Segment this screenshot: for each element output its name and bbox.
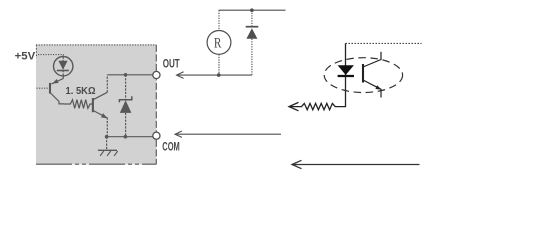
box border bottom (long dashes) bbox=[36, 163, 156, 165]
transistor Q1 (PNP) bbox=[50, 76, 64, 104]
zener diode ZD1 bbox=[119, 75, 131, 137]
arrow into OUT bbox=[176, 72, 252, 79]
arrow bottom return (to COM) bbox=[292, 160, 420, 168]
junction node (zener bottom) bbox=[124, 135, 128, 139]
wire +5V feed bbox=[38, 55, 63, 57]
diode D2 (surge protection) bbox=[246, 10, 259, 75]
opto package (dashed ellipse) bbox=[324, 58, 402, 93]
svg-text:OUT: OUT bbox=[163, 58, 180, 70]
transistor Q2 (NPN output) bbox=[93, 75, 108, 137]
series resistor (external, with arrow to OUT) bbox=[289, 43, 346, 110]
ground bbox=[98, 137, 118, 156]
junction node (zener top) bbox=[124, 73, 128, 77]
box border left (sparse dots near top) bbox=[35, 45, 37, 58]
LED D1 (indicator, in circle) bbox=[54, 56, 73, 76]
junction node (diode top) bbox=[250, 8, 254, 12]
junction node (load bottom) bbox=[217, 73, 221, 77]
svg-text:R: R bbox=[214, 36, 222, 52]
resistor 1.5kΩ (zigzag) bbox=[64, 100, 93, 109]
terminal COM bbox=[153, 132, 160, 139]
wire base Q1 bbox=[37, 87, 50, 89]
opto LED bbox=[338, 65, 354, 75]
opto phototransistor bbox=[362, 64, 364, 83]
wire opto V+ (dotted) bbox=[346, 42, 422, 44]
optocoupler PC1 bbox=[324, 52, 402, 98]
sensor internal circuit box (grey) bbox=[36, 45, 156, 165]
box border right (dashed) bbox=[155, 45, 157, 164]
terminal OUT bbox=[153, 71, 160, 78]
wire OUT rail (internal) bbox=[107, 74, 153, 76]
svg-text:1. 5KΩ: 1. 5KΩ bbox=[66, 85, 96, 97]
arrow into COM bbox=[175, 131, 281, 137]
svg-text:+5V: +5V bbox=[15, 50, 36, 62]
load resistor R (circle symbol) bbox=[207, 10, 231, 75]
svg-text:COM: COM bbox=[162, 141, 180, 153]
junction node (emitter/ground) bbox=[105, 135, 109, 139]
wire top rail bbox=[219, 9, 286, 11]
wire COM rail (internal) bbox=[107, 136, 153, 138]
box border top (dotted) bbox=[36, 44, 156, 46]
